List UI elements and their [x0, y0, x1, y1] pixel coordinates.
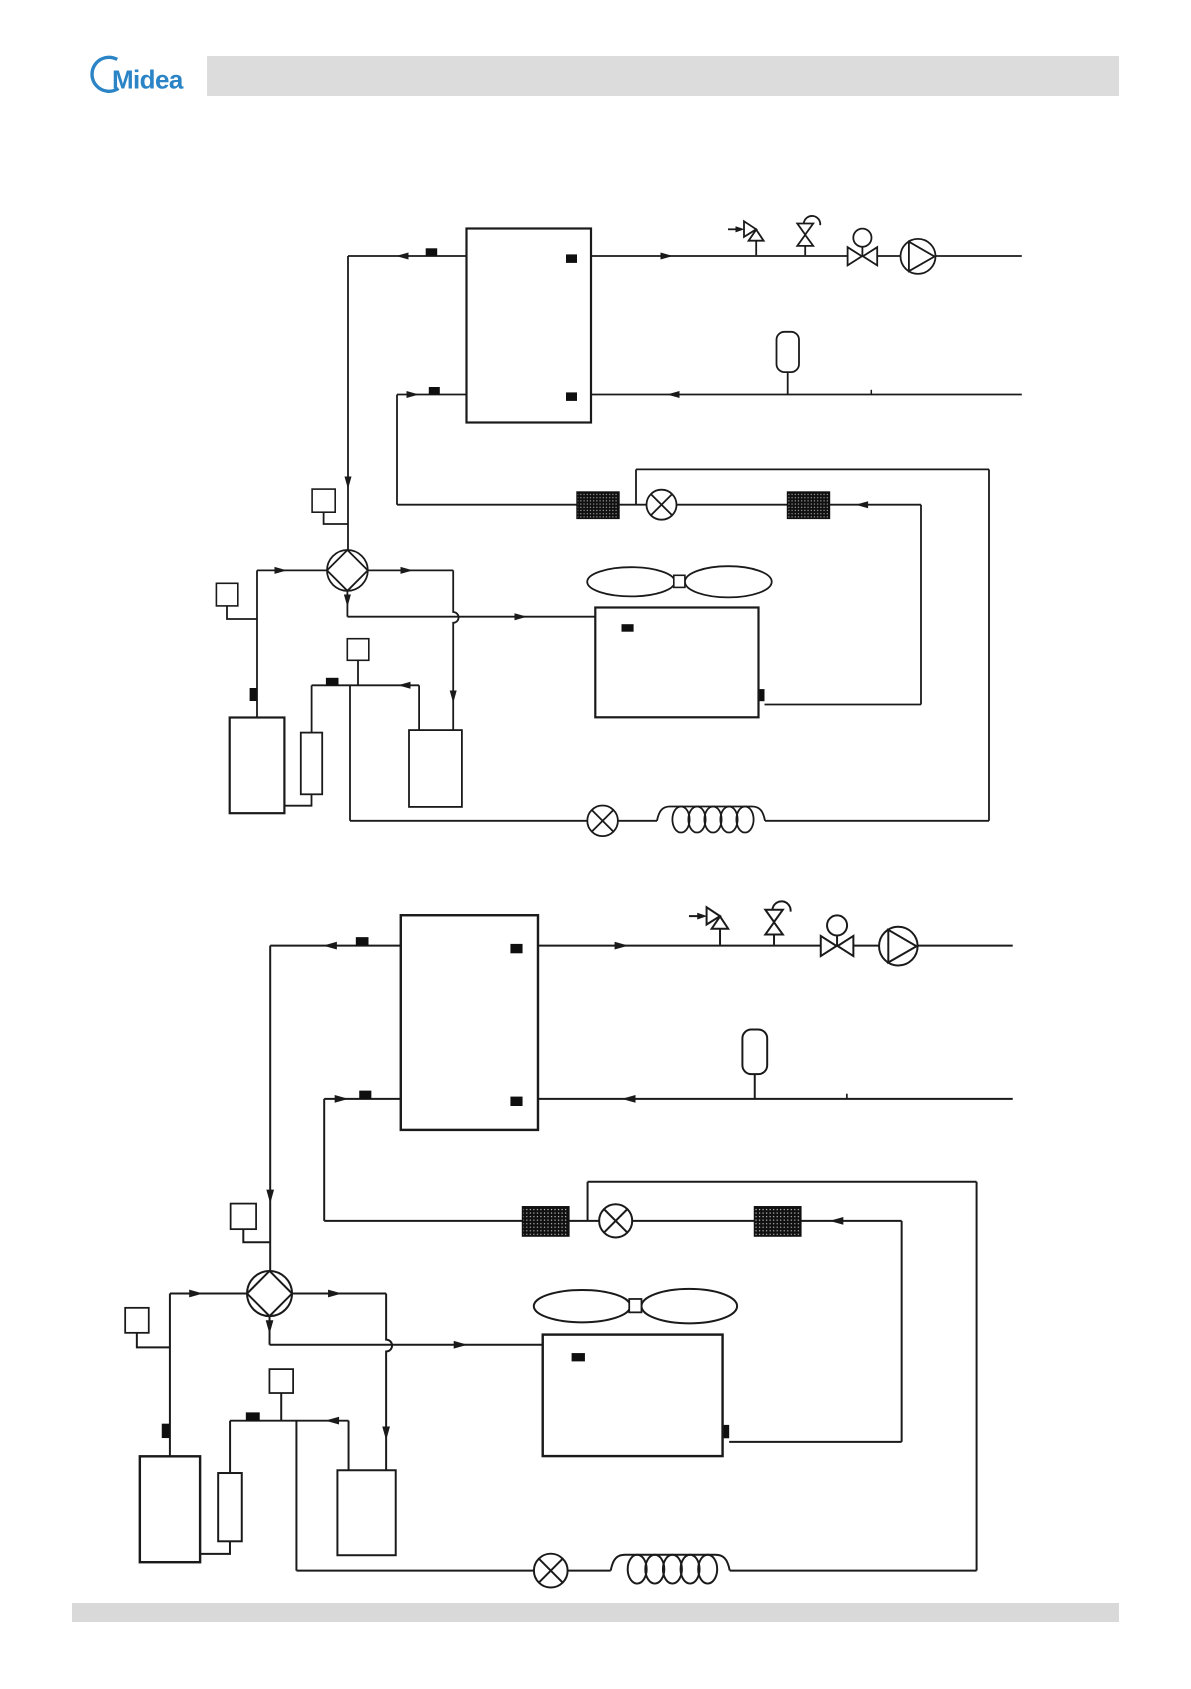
flow arrow liquid 2	[830, 1217, 844, 1225]
wire liquid line c 2	[632, 1220, 754, 1222]
wire return water pipe left 1	[397, 394, 467, 396]
wire liquid line 1	[397, 504, 577, 506]
wire valve to suction branch 1	[368, 569, 453, 571]
wire compressor suction 1	[284, 794, 311, 805]
sensor coil temp 2	[572, 1353, 585, 1361]
wire injection line a 1	[350, 820, 587, 822]
sensor suction temp 2	[246, 1412, 260, 1420]
sensor coil temp 1	[622, 624, 634, 632]
flow arrow return into HX 1	[407, 391, 420, 398]
flow arrow down riser 1	[345, 477, 352, 490]
wire header to accumulator 1	[311, 685, 313, 732]
wire liquid line d 1	[830, 504, 922, 506]
motorised valve MV2	[827, 915, 847, 935]
flow arrow discharge 2	[189, 1290, 203, 1298]
filter F2-1	[788, 492, 830, 518]
wire bypass top run 2	[588, 1181, 977, 1183]
header bar	[207, 56, 1119, 96]
wire supply water pipe left 2	[270, 945, 401, 947]
expansion valve EEV1	[647, 490, 677, 520]
outdoor coil unit OC1	[595, 608, 758, 718]
wire liquid line c 1	[677, 504, 788, 506]
wire discharge to valve 2	[170, 1293, 247, 1295]
filter F1-2	[523, 1207, 569, 1236]
wire injection riser 1	[349, 685, 351, 821]
wire bypass right drop 2	[976, 1182, 978, 1571]
wire gas line to coil 2	[270, 1344, 543, 1346]
wire header to accumulator 2	[229, 1421, 231, 1473]
flow arrow supply right 2	[615, 942, 629, 950]
wire supply riser to 4-way valve 2	[269, 946, 271, 1272]
pressure switch LP2	[269, 1369, 293, 1393]
wire compressor discharge riser 1	[256, 570, 258, 717]
wire suction header 2	[230, 1420, 348, 1422]
wire gas line to coil 1	[347, 616, 595, 618]
4-way valve 4WV1	[327, 550, 368, 591]
wire header to separator 2	[348, 1421, 350, 1471]
compressor CP2	[140, 1456, 200, 1562]
wire liquid line b 1	[619, 504, 647, 506]
wire HP switch lead 1	[227, 606, 257, 619]
sensor discharge temp 1	[250, 688, 257, 701]
wire pressure sensor lead 1	[324, 512, 348, 524]
air purge valve AV1	[797, 224, 813, 235]
svg-text:Midea: Midea	[112, 64, 184, 94]
fan blade right 1	[685, 566, 772, 597]
flow arrow suction 2	[325, 1417, 339, 1425]
capillary coil CL2	[611, 1555, 730, 1571]
wire HX liquid drop 1	[396, 395, 398, 505]
wire return water pipe right 2	[538, 1098, 1013, 1100]
sensor discharge temp 2	[162, 1424, 170, 1438]
wire valve to suction branch 2	[292, 1293, 386, 1295]
sensor HX water outlet 2	[510, 944, 522, 953]
wire liquid line 2	[324, 1220, 522, 1222]
wire liquid line d 2	[801, 1220, 902, 1222]
flow arrow gas line 1	[515, 613, 528, 620]
plate heat exchanger HX1	[467, 229, 592, 423]
wire injection line b 2	[568, 1570, 611, 1572]
expansion valve EEV2	[599, 1204, 632, 1237]
wire coil outlet run 2	[729, 1441, 901, 1443]
wire liquid line b 2	[569, 1220, 599, 1222]
air purge valve AV2	[765, 910, 783, 922]
fan blade left 1	[587, 567, 675, 596]
pressure sensor box 2	[231, 1204, 256, 1230]
sensor HX water inlet 1	[566, 392, 577, 401]
flow arrow supply left 1	[396, 253, 409, 260]
sensor suction temp 1	[326, 678, 339, 686]
wire coil outlet drop 2	[901, 1221, 903, 1442]
motorised valve MV1	[853, 229, 871, 247]
wire suction drop with hop 1	[453, 570, 458, 730]
expansion vessel EV2	[742, 1030, 767, 1075]
wire bypass top run 1	[636, 468, 989, 470]
wire compressor discharge riser 2	[169, 1294, 171, 1457]
sensor Tw-in 2	[359, 1091, 371, 1099]
safety valve SV2	[689, 915, 701, 917]
wire valve bottom arm 2	[269, 1316, 271, 1345]
4-way valve 4WV2	[247, 1271, 292, 1316]
node return-pipe tap 2	[846, 1094, 848, 1099]
filter F1-1	[577, 492, 619, 518]
wire injection line c 2	[730, 1570, 977, 1572]
accumulator AC1	[301, 733, 322, 795]
wire bypass right drop 1	[988, 469, 990, 820]
wire HX liquid drop 2	[323, 1099, 325, 1221]
flow arrow valve right 1	[401, 567, 414, 574]
pressure switch LP1	[347, 639, 369, 661]
compressor CP1	[230, 718, 285, 814]
wire discharge to valve 1	[257, 569, 327, 571]
flow arrow liquid 1	[856, 501, 869, 508]
node return-pipe tap 1	[870, 390, 872, 395]
wire injection line a 2	[296, 1570, 533, 1572]
wire HP switch lead 2	[137, 1333, 170, 1347]
sensor HX water inlet 2	[510, 1097, 522, 1106]
footer bar	[72, 1603, 1119, 1622]
sensor Tw-in 1	[429, 387, 440, 395]
wire bypass branch riser 2	[587, 1182, 589, 1221]
wire suction drop with hop 2	[386, 1294, 392, 1471]
wire pressure sensor lead 2	[243, 1229, 270, 1242]
filter F2-2	[755, 1207, 801, 1236]
wire injection riser 2	[295, 1421, 297, 1571]
gas-liquid separator GS1	[409, 730, 462, 807]
wire compressor suction 2	[200, 1541, 230, 1554]
flow arrow valve bottom 2	[266, 1320, 274, 1334]
water pump P1	[901, 239, 936, 274]
wire supply water pipe left 1	[348, 255, 467, 257]
wire suction header 1	[312, 684, 420, 686]
solenoid valve SLV1	[587, 806, 618, 837]
expansion vessel EV1	[777, 332, 800, 372]
flow arrow supply right 1	[661, 253, 674, 260]
wire bypass branch riser 1	[635, 469, 637, 504]
flow arrow valve bottom 1	[344, 595, 351, 608]
wire supply water pipe right 1	[591, 255, 1022, 257]
wire return water pipe left 2	[324, 1098, 401, 1100]
sensor Tw-out 2	[356, 937, 369, 945]
wire LP switch lead 1	[357, 660, 359, 685]
water pump P2	[879, 927, 918, 966]
flow arrow into separator 2	[382, 1426, 390, 1440]
safety valve SV1	[728, 228, 739, 230]
sensor Tw-out 1	[426, 248, 438, 256]
flow arrow down riser 2	[266, 1190, 274, 1204]
wire coil outlet drop 1	[920, 505, 922, 705]
wire return water pipe right 1	[591, 394, 1022, 396]
solenoid valve SLV2	[534, 1554, 568, 1588]
flow arrow supply left 2	[323, 942, 337, 950]
sensor HX water outlet 1	[566, 254, 577, 263]
Midea logo	[92, 57, 184, 94]
fan hub 1	[674, 575, 685, 587]
wire injection line b 1	[618, 820, 657, 822]
wire valve bottom arm 1	[346, 591, 348, 617]
fan blade right 2	[641, 1289, 737, 1324]
flow arrow return 1	[667, 391, 680, 398]
wire injection line c 1	[765, 820, 989, 822]
flow arrow gas line 2	[454, 1341, 468, 1349]
flow arrow return 2	[622, 1095, 636, 1103]
plate heat exchanger HX2	[401, 915, 538, 1130]
accumulator AC2	[218, 1473, 242, 1541]
pressure switch HP1	[216, 583, 237, 606]
wire header to separator 1	[418, 685, 420, 730]
wire supply water pipe right 2	[538, 945, 1013, 947]
flow arrow into separator 1	[450, 691, 457, 704]
flow arrow return into HX 2	[335, 1095, 349, 1103]
flow arrow suction 1	[398, 682, 411, 689]
gas-liquid separator GS2	[337, 1470, 395, 1555]
pressure sensor box 1	[312, 489, 335, 512]
wire coil outlet run 1	[765, 704, 922, 706]
flow arrow discharge 1	[275, 567, 288, 574]
flow arrow valve right 2	[328, 1290, 342, 1298]
wire supply riser to 4-way valve 1	[347, 256, 349, 550]
fan hub 2	[629, 1299, 641, 1312]
capillary coil CL1	[657, 807, 765, 821]
wire LP switch lead 2	[280, 1393, 282, 1421]
sensor coil outlet 1	[758, 689, 764, 701]
outdoor coil unit OC2	[543, 1335, 723, 1456]
sensor coil outlet 2	[722, 1425, 729, 1438]
pressure switch HP2	[125, 1308, 149, 1333]
fan blade left 2	[534, 1290, 631, 1322]
